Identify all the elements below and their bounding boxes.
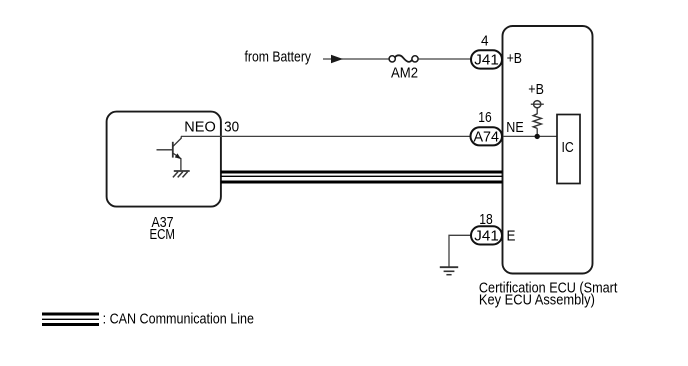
svg-text:E: E (507, 227, 516, 244)
svg-text:4: 4 (481, 32, 489, 49)
svg-text:ECM: ECM (150, 226, 176, 243)
wire NE (ECM collector to ECU junction / IC) (181, 135, 557, 137)
connector A74 pin 16 (oval) (471, 127, 503, 145)
svg-text:from Battery: from Battery (245, 49, 312, 66)
svg-text:+B: +B (507, 50, 522, 67)
ECU box (Certification ECU) (503, 26, 593, 274)
svg-text:IC: IC (562, 139, 574, 156)
CAN bus upper thick line (221, 171, 503, 174)
CAN bus lower thick line (221, 181, 503, 184)
legend CAN symbol upper thick line (42, 313, 99, 316)
legend CAN symbol lower thick line (42, 323, 99, 326)
ECM box A37 (107, 112, 221, 207)
svg-text:NE: NE (506, 119, 523, 136)
svg-text:16: 16 (478, 109, 491, 126)
svg-text:+B: +B (528, 81, 544, 98)
svg-text:: CAN Communication Line: : CAN Communication Line (103, 311, 254, 328)
svg-text:AM2: AM2 (391, 65, 418, 82)
connector J41 pin 18 (oval) (471, 226, 502, 244)
svg-text:30: 30 (224, 119, 239, 136)
svg-text:Key ECU Assembly): Key ECU Assembly) (479, 292, 595, 309)
svg-text:NEO: NEO (184, 119, 216, 136)
IC box (557, 115, 580, 184)
svg-text:18: 18 (479, 211, 493, 228)
transistor Q (NPN in ECM) (157, 136, 182, 170)
svg-text:J41: J41 (474, 227, 499, 244)
terminal +B (circle with bar) (531, 101, 544, 108)
legend CAN symbol middle thin line (42, 318, 99, 320)
wire battery feed right segment (417, 58, 472, 60)
wire E (J41-18 to ground) (449, 235, 472, 266)
fuse AM2 (389, 55, 418, 62)
connector J41 pin 4 (oval) (471, 50, 502, 68)
junction node NE (535, 134, 540, 139)
svg-text:J41: J41 (474, 51, 499, 68)
wire battery feed left segment (323, 58, 390, 60)
ground (chassis, under transistor) (173, 171, 190, 177)
resistor (pull-up inside ECU) (533, 108, 541, 134)
arrow from Battery (331, 55, 343, 64)
CAN bus middle thin line (221, 175, 503, 177)
ground (earth, bottom) (440, 267, 458, 275)
svg-text:A74: A74 (474, 129, 500, 146)
